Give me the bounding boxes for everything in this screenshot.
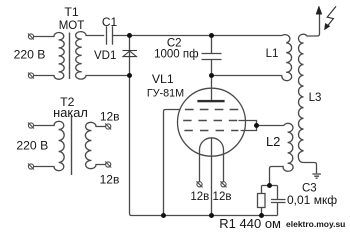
svg-text:L2: L2: [266, 134, 280, 149]
svg-text:220 В: 220 В: [14, 47, 46, 61]
svg-text:L3: L3: [309, 92, 322, 104]
svg-text:12в: 12в: [100, 172, 120, 186]
svg-text:МОТ: МОТ: [59, 20, 85, 32]
svg-text:220 В: 220 В: [16, 139, 48, 153]
svg-text:1000 пф: 1000 пф: [154, 49, 198, 61]
svg-text:ГУ-81М: ГУ-81М: [147, 88, 184, 100]
svg-text:12в: 12в: [190, 191, 209, 203]
svg-text:12в: 12в: [100, 109, 120, 123]
svg-text:накал: накал: [53, 105, 88, 120]
svg-text:12в: 12в: [213, 191, 232, 203]
svg-text:VL1: VL1: [152, 72, 174, 86]
svg-text:C1: C1: [102, 15, 118, 29]
svg-text:VD1: VD1: [94, 50, 116, 62]
svg-text:elektro.moy.su: elektro.moy.su: [286, 219, 345, 229]
svg-text:R1 440 ом: R1 440 ом: [219, 216, 281, 231]
svg-text:L1: L1: [266, 48, 279, 60]
svg-text:Т1: Т1: [64, 5, 79, 19]
svg-text:0,01 мкф: 0,01 мкф: [287, 193, 337, 207]
